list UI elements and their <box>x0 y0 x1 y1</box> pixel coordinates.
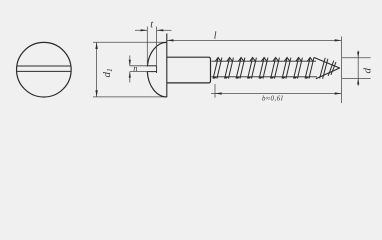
thread ridge 2 <box>224 58 234 79</box>
d dimension line <box>357 51 359 86</box>
b arrow right <box>335 92 342 94</box>
d extension line top <box>342 57 371 59</box>
slot bottom n extension line <box>130 71 147 73</box>
svg-text:b≈0,6l: b≈0,6l <box>262 94 283 102</box>
svg-text:d: d <box>361 68 373 74</box>
thread ridge on cone 2 (crossing near tip) <box>328 61 334 76</box>
t extension line right (slot bottom) <box>156 27 158 66</box>
thread ridge on cone 1 <box>320 58 326 79</box>
thread ridge 6 <box>270 58 280 79</box>
thread top root line <box>212 60 317 62</box>
n dimension line lower tail with arrow up <box>129 72 131 83</box>
d1 extension line bottom <box>93 96 167 98</box>
tip extension line <box>340 37 342 104</box>
d arrow down (from above) <box>357 52 359 58</box>
tip cone top line <box>314 57 340 68</box>
thread ridge 1 <box>212 58 222 79</box>
screw head front view circle <box>17 42 72 97</box>
svg-text:l: l <box>214 31 217 42</box>
t dimension right tail with arrow left <box>157 29 172 31</box>
d arrow up (from below) <box>357 78 359 84</box>
slot top n extension line <box>130 65 147 67</box>
slot bottom vertical line <box>156 66 158 73</box>
thread ridge 5 <box>258 58 268 79</box>
shank rectangle <box>167 57 211 83</box>
thread ridge 9 <box>304 58 314 79</box>
thread ridge 7 <box>281 58 291 79</box>
l arrow left <box>167 39 174 41</box>
slot top line (front view) <box>17 65 71 67</box>
thread ridge 4 <box>247 58 257 79</box>
svg-text:n: n <box>133 63 137 73</box>
head dome arc upper part <box>147 42 166 66</box>
d1 dimension line <box>96 42 98 97</box>
l arrow right <box>335 39 342 41</box>
tip cone bottom line <box>316 68 340 79</box>
d extension line bottom <box>342 77 371 79</box>
thread bottom root line <box>212 76 318 78</box>
head flat face line <box>166 34 168 97</box>
thread ridges <box>212 58 314 79</box>
b arrow left <box>215 92 222 94</box>
head dome arc lower part <box>147 72 167 97</box>
b extension line left <box>214 84 216 98</box>
t dimension left tail with arrow right <box>135 29 147 31</box>
t extension line left (dome apex) <box>146 27 148 67</box>
d1 dimension arrow up <box>95 42 97 49</box>
thread ridge 8 <box>293 58 303 79</box>
slot side view bottom line <box>147 71 157 73</box>
slot side view top line <box>147 65 157 67</box>
slot bottom line (front view) <box>17 70 71 72</box>
b dimension line <box>211 93 341 95</box>
d1 dimension arrow down <box>95 90 97 97</box>
thread ridge 3 <box>235 58 245 79</box>
d1 extension line top <box>93 41 167 43</box>
l dimension line <box>167 39 342 41</box>
n dimension line upper tail with arrow down <box>129 56 131 66</box>
